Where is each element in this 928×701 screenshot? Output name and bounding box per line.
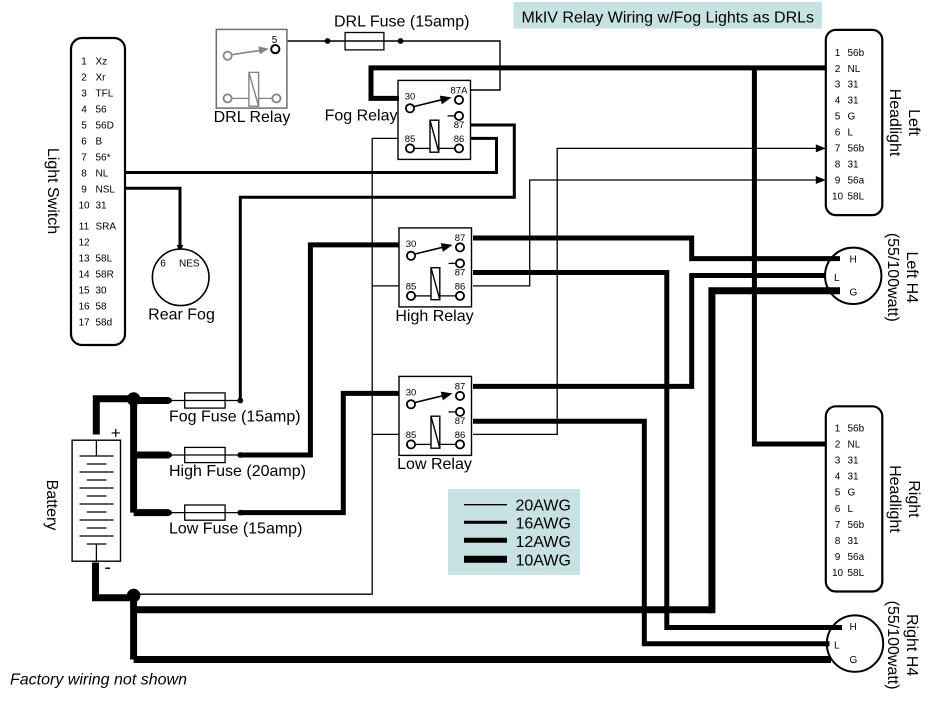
svg-text:87: 87 <box>455 381 466 392</box>
svg-text:31: 31 <box>848 456 860 467</box>
svg-text:16: 16 <box>78 302 90 313</box>
svg-text:Battery: Battery <box>43 480 60 531</box>
svg-text:Left H4: Left H4 <box>903 252 920 304</box>
svg-text:NES: NES <box>179 259 200 270</box>
svg-text:7: 7 <box>835 144 841 155</box>
svg-text:9: 9 <box>835 175 841 186</box>
svg-text:Low Relay: Low Relay <box>397 456 472 473</box>
svg-text:7: 7 <box>835 520 841 531</box>
svg-text:3: 3 <box>835 456 841 467</box>
svg-text:+: + <box>111 424 121 443</box>
svg-text:6: 6 <box>81 137 87 148</box>
svg-text:B: B <box>96 137 103 148</box>
svg-text:High Fuse (20amp): High Fuse (20amp) <box>169 463 306 480</box>
svg-text:15: 15 <box>78 286 90 297</box>
svg-text:87: 87 <box>455 233 466 244</box>
svg-text:87: 87 <box>455 416 466 427</box>
svg-text:9: 9 <box>835 552 841 563</box>
svg-text:Light Switch: Light Switch <box>44 148 61 234</box>
svg-text:3: 3 <box>81 89 87 100</box>
svg-text:High Relay: High Relay <box>395 308 473 325</box>
svg-text:56b: 56b <box>848 48 865 59</box>
svg-text:1: 1 <box>835 423 841 434</box>
svg-text:-: - <box>105 558 111 579</box>
svg-text:Rear Fog: Rear Fog <box>148 307 215 324</box>
svg-text:10: 10 <box>832 568 844 579</box>
svg-text:20AWG: 20AWG <box>516 498 571 515</box>
svg-text:L: L <box>848 504 854 515</box>
svg-text:6: 6 <box>160 259 166 270</box>
svg-text:58R: 58R <box>96 270 114 281</box>
svg-text:SRA: SRA <box>96 222 117 233</box>
svg-text:1: 1 <box>835 48 841 59</box>
svg-text:56a: 56a <box>848 552 865 563</box>
svg-text:56b: 56b <box>848 520 865 531</box>
svg-text:NL: NL <box>848 439 861 450</box>
svg-text:L: L <box>848 128 854 139</box>
svg-text:30: 30 <box>96 286 108 297</box>
svg-text:30: 30 <box>406 239 417 250</box>
svg-text:30: 30 <box>406 388 417 399</box>
svg-text:6: 6 <box>835 128 841 139</box>
svg-text:31: 31 <box>848 472 860 483</box>
svg-text:58d: 58d <box>96 318 113 329</box>
svg-text:13: 13 <box>78 254 90 265</box>
svg-text:56a: 56a <box>848 175 865 186</box>
svg-text:12: 12 <box>78 238 90 249</box>
svg-text:8: 8 <box>835 159 841 170</box>
svg-text:16AWG: 16AWG <box>516 516 571 533</box>
svg-text:Low Fuse (15amp): Low Fuse (15amp) <box>169 521 302 538</box>
svg-text:31: 31 <box>848 80 860 91</box>
svg-text:3: 3 <box>835 80 841 91</box>
svg-text:Xz: Xz <box>96 57 108 68</box>
svg-text:Fog Relay: Fog Relay <box>325 108 398 125</box>
svg-text:Fog Fuse (15amp): Fog Fuse (15amp) <box>169 409 301 426</box>
svg-text:8: 8 <box>81 169 87 180</box>
svg-text:7: 7 <box>81 153 87 164</box>
svg-text:4: 4 <box>835 472 841 483</box>
svg-text:9: 9 <box>81 185 87 196</box>
svg-text:H: H <box>850 622 857 633</box>
svg-text:2: 2 <box>835 64 841 75</box>
svg-text:Right: Right <box>905 480 922 518</box>
svg-text:Left: Left <box>905 109 922 136</box>
svg-text:30: 30 <box>405 92 416 103</box>
svg-text:(55/100watt): (55/100watt) <box>884 601 901 690</box>
svg-text:56*: 56* <box>96 153 111 164</box>
svg-text:10: 10 <box>832 191 844 202</box>
svg-text:L: L <box>834 273 840 284</box>
svg-text:11: 11 <box>79 222 90 233</box>
svg-text:6: 6 <box>835 504 841 515</box>
svg-text:NL: NL <box>96 169 109 180</box>
svg-text:17: 17 <box>78 318 90 329</box>
svg-text:8: 8 <box>835 536 841 547</box>
svg-text:G: G <box>848 488 856 499</box>
svg-text:2: 2 <box>81 73 87 84</box>
svg-text:(55/100watt): (55/100watt) <box>884 233 901 322</box>
svg-text:56D: 56D <box>96 121 114 132</box>
svg-text:Headlight: Headlight <box>886 89 903 157</box>
svg-text:H: H <box>850 254 857 265</box>
svg-text:10: 10 <box>78 201 90 212</box>
svg-text:4: 4 <box>81 105 87 116</box>
svg-text:58: 58 <box>96 302 108 313</box>
svg-text:5: 5 <box>81 121 87 132</box>
svg-text:14: 14 <box>78 270 90 281</box>
svg-text:Factory wiring not shown: Factory wiring not shown <box>10 672 187 689</box>
svg-text:58L: 58L <box>848 191 865 202</box>
svg-text:G: G <box>850 655 858 666</box>
svg-text:G: G <box>850 287 858 298</box>
svg-text:31: 31 <box>96 201 108 212</box>
svg-text:L: L <box>834 641 840 652</box>
svg-text:10AWG: 10AWG <box>516 553 571 570</box>
svg-text:5: 5 <box>835 112 841 123</box>
svg-text:Right H4: Right H4 <box>903 614 920 676</box>
svg-text:87: 87 <box>455 267 466 278</box>
svg-text:87: 87 <box>454 120 465 131</box>
svg-text:31: 31 <box>848 536 860 547</box>
svg-text:Headlight: Headlight <box>886 465 903 533</box>
svg-text:58L: 58L <box>96 254 113 265</box>
svg-text:31: 31 <box>848 159 860 170</box>
svg-text:5: 5 <box>835 488 841 499</box>
svg-text:56b: 56b <box>848 144 865 155</box>
svg-text:MkIV Relay Wiring w/Fog Lights: MkIV Relay Wiring w/Fog Lights as DRLs <box>522 10 815 27</box>
svg-text:12AWG: 12AWG <box>516 534 571 551</box>
svg-text:4: 4 <box>835 96 841 107</box>
svg-text:Xr: Xr <box>96 73 107 84</box>
svg-text:NSL: NSL <box>96 185 116 196</box>
svg-text:NL: NL <box>848 64 861 75</box>
svg-text:56b: 56b <box>848 423 865 434</box>
svg-text:G: G <box>848 112 856 123</box>
svg-text:31: 31 <box>848 96 860 107</box>
svg-text:58L: 58L <box>848 568 865 579</box>
svg-text:DRL Fuse (15amp): DRL Fuse (15amp) <box>334 14 469 31</box>
svg-text:DRL Relay: DRL Relay <box>214 109 291 126</box>
svg-text:87A: 87A <box>451 85 469 96</box>
svg-text:56: 56 <box>96 105 108 116</box>
svg-text:2: 2 <box>835 439 841 450</box>
svg-text:TFL: TFL <box>96 89 114 100</box>
svg-text:1: 1 <box>81 57 87 68</box>
